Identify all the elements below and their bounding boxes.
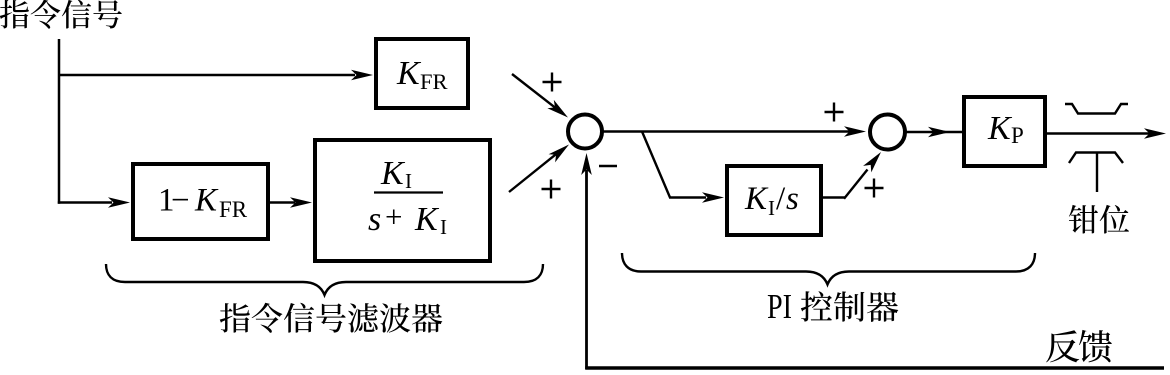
svg-text:K: K [396,55,422,92]
svg-text:FR: FR [219,197,248,222]
svg-text:FR: FR [420,69,448,94]
svg-text:K: K [987,110,1013,147]
svg-text:s: s [368,201,381,238]
svg-text:I: I [440,215,447,239]
svg-text:+: + [385,199,402,234]
svg-text:K: K [194,183,219,219]
svg-text:I: I [768,196,775,220]
svg-text:PI: PI [767,287,792,326]
svg-text:K: K [744,181,769,217]
svg-text:I: I [405,169,412,193]
svg-text:K: K [380,155,406,192]
svg-text:/: / [776,181,786,217]
svg-text:P: P [1011,123,1024,148]
svg-text:s: s [786,181,799,217]
svg-text:K: K [414,201,440,238]
svg-text:−: − [171,183,190,219]
